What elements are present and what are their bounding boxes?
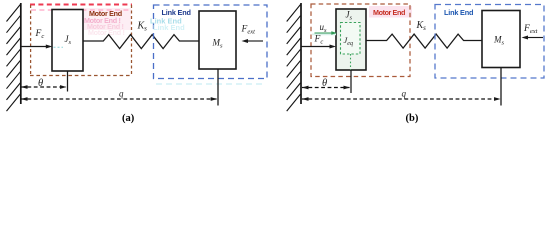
svg-text:Ks: Ks — [137, 20, 148, 32]
wall (a) hatching — [7, 5, 21, 112]
dimension q (b) right arrowhead — [494, 97, 501, 101]
force arrow F_c (a) head — [46, 45, 53, 49]
svg-text:(a): (a) — [122, 113, 135, 124]
dimension theta (b) right arrowhead — [344, 86, 351, 90]
svg-text:q: q — [402, 88, 407, 98]
Motor End dashed box (a) left edge — [30, 5, 32, 76]
dimension theta (a) left arrowhead — [21, 85, 28, 89]
tick line below M_s block (b) — [500, 68, 502, 106]
Link End dashed box (b) — [435, 5, 544, 79]
mass block J_s (a) — [52, 10, 83, 72]
svg-text:Motor End: Motor End — [373, 8, 405, 17]
dimension theta (b) left arrowhead — [302, 86, 309, 90]
spring K_s (a) — [83, 35, 199, 49]
tick line below J_s block (b) — [350, 70, 352, 93]
svg-text:θ: θ — [38, 78, 43, 89]
external force arrow F_ext (b) head — [522, 36, 529, 40]
ghost pink halo behind Motor End label (b) — [369, 6, 412, 18]
spring K_s (b) — [366, 34, 482, 48]
dimension theta (a) dashed line — [21, 86, 66, 88]
mass block M_s (b) — [482, 11, 520, 68]
svg-text:Link End: Link End — [444, 8, 473, 17]
external force arrow F_ext (b) wire — [527, 37, 543, 39]
Motor End dashed box (a) top edge — [30, 4, 132, 6]
wall (b) hatching — [287, 5, 301, 112]
ghost teal band behind u_s arrow (b) — [312, 33, 336, 35]
svg-text:Motor End: Motor End — [89, 9, 122, 18]
dimension q (b) left arrowhead — [302, 97, 309, 101]
svg-text:Ks: Ks — [416, 20, 427, 32]
dimension q (a) left arrowhead — [21, 97, 28, 101]
tick line below M_s block (a) — [217, 69, 219, 106]
svg-text:q: q — [119, 88, 124, 98]
svg-text:Fext: Fext — [241, 25, 256, 36]
force arrow F_c (b) wire — [302, 46, 331, 48]
Motor End dashed box (a) bottom edge — [30, 75, 132, 77]
wall (b) vertical line — [300, 3, 302, 104]
svg-text:Fc: Fc — [35, 29, 45, 40]
wall (a) vertical line — [20, 3, 22, 104]
svg-text:Fext: Fext — [523, 24, 538, 35]
equivalent inertia green dashed box J_eq (b) — [341, 23, 361, 55]
dimension q (b) dashed line — [302, 98, 500, 100]
ghost pink halo behind Motor End labels (a) — [83, 8, 131, 30]
svg-text:(b): (b) — [406, 113, 419, 124]
svg-text:Fc: Fc — [314, 35, 324, 46]
ghost cyan dashed line under Link End box bottom (a) — [156, 83, 266, 85]
external force arrow F_ext (a) wire — [248, 40, 264, 42]
control input arrow u_s (b) wire — [315, 32, 333, 34]
svg-text:θ: θ — [322, 78, 327, 89]
mass block J_s (b) — [336, 9, 366, 70]
ghost teal dashes after F_c arrow (a) — [54, 46, 64, 48]
svg-text:us: us — [320, 22, 328, 34]
Motor End dashed box (b) — [311, 4, 410, 77]
dimension q (a) dashed line — [21, 98, 217, 100]
dimension q (a) right arrowhead — [211, 97, 218, 101]
force arrow F_c (a) wire — [21, 46, 47, 48]
dimension theta (a) right arrowhead — [60, 85, 67, 89]
Motor End dashed box (a) right edge — [131, 5, 133, 76]
svg-text:Link End: Link End — [153, 23, 185, 32]
external force arrow F_ext (a) head — [242, 39, 249, 43]
force arrow F_c (b) head — [330, 45, 337, 49]
svg-text:Link End: Link End — [162, 8, 191, 17]
svg-text:Motor End !: Motor End ! — [88, 28, 125, 37]
mass block M_s (a) — [199, 11, 236, 69]
green dotted link below J_eq box (b) — [350, 54, 352, 70]
dimension theta (b) dashed line — [302, 87, 350, 89]
Link End dashed box (a) — [154, 5, 268, 79]
ghost pink dashed line under top edge (a) — [31, 9, 132, 11]
control input arrow u_s (b) head — [331, 31, 337, 34]
tick line below J_s block (a) — [67, 71, 69, 92]
